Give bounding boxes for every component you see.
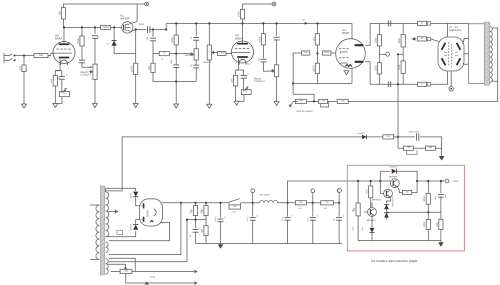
input jack J1 (4, 53, 16, 63)
power transformer T1 primary (96, 205, 99, 259)
wire R15 to left col (293, 53, 301, 94)
wire drain to rail (131, 22, 137, 24)
label 1N4007 b (130, 223, 133, 231)
wire R1 to ground (23, 72, 25, 105)
svg-text:6.3v: 6.3v (150, 276, 156, 279)
svg-text:100u: 100u (214, 218, 217, 222)
node tone bottom (175, 80, 177, 82)
label 4k7 rot a (189, 209, 192, 213)
svg-text:100k: 100k (423, 221, 426, 227)
wire V6 plate to OPT (463, 63, 469, 64)
svg-text:68k: 68k (39, 54, 44, 57)
svg-text:4k7: 4k7 (201, 228, 204, 233)
node diode top (113, 26, 115, 28)
svg-text:+: + (256, 214, 258, 218)
wire cap3 col (287, 203, 289, 217)
wire V3 cath bottom join (236, 95, 244, 102)
wire C4 to tone stack (150, 29, 166, 31)
wire C11 to wiper (263, 62, 272, 71)
resistor R9 100k (171, 35, 178, 45)
wire cap5 down (338, 220, 340, 243)
wire row1 drop to tube (447, 23, 449, 38)
transistor Q1 BU508A (390, 179, 399, 188)
trimmer P8 humdinger (120, 269, 132, 273)
diode D5 zener a (384, 204, 389, 209)
svg-text:+10v: +10v (352, 227, 355, 231)
svg-text:10k: 10k (405, 191, 408, 194)
wire C22 down (440, 197, 442, 219)
wire zener link (386, 209, 388, 212)
wire trim to 50k (413, 147, 425, 149)
wire cap5 col (338, 203, 340, 217)
wire cap1 to ground (220, 222, 222, 244)
resistor R30 dropper b (201, 206, 208, 216)
wire 6.3v lead to pot right (109, 258, 135, 271)
resistor R11 V3 cathode (231, 75, 238, 86)
node B+ after switch (252, 202, 254, 204)
wire rail B (243, 3, 273, 5)
svg-text:GQE04/20: GQE04/20 (449, 29, 462, 32)
svg-text:100k: 100k (171, 37, 174, 43)
resistor R5 470k (77, 36, 84, 46)
wire mid col top (175, 23, 177, 35)
label 4n7 b (190, 63, 193, 67)
wire R12 to cap (262, 45, 264, 58)
resistor R8 56k slope (148, 63, 155, 72)
wire R41 to rail C (242, 19, 244, 23)
resistor R20 grid stop top (418, 21, 427, 25)
label note griglie (371, 259, 418, 263)
capacitor C5 47n (150, 38, 156, 41)
wire rail A from 18k top (63, 4, 65, 8)
label red col1 (352, 208, 355, 212)
svg-text:5k: 5k (421, 37, 423, 40)
wire top loop right (397, 171, 418, 181)
node rail C volume pot (208, 22, 210, 24)
label cap2 v (246, 218, 249, 221)
wire C1 down (61, 80, 63, 92)
wire diode column top (113, 27, 115, 40)
wire V3 cath cap leg (243, 70, 245, 75)
transistor Q3 MPSA44 lower (368, 208, 377, 217)
node B+ 4 (338, 202, 340, 204)
svg-text:220k: 220k (374, 65, 377, 71)
resistor R10 100R grid (218, 51, 227, 55)
wire secondary bottom lead (492, 80, 497, 82)
label red cap (444, 194, 447, 199)
capacitor C18 filter 2 (250, 214, 259, 220)
label VD1 (57, 77, 62, 80)
wire P6 to ground (276, 77, 278, 102)
wire secondary top lead (492, 28, 497, 102)
node 470k rail C (262, 22, 264, 24)
wire tone bottom to ground (175, 82, 177, 105)
label VD2 (247, 63, 251, 66)
terminal B+ 2 (311, 189, 315, 193)
label 100v (361, 227, 364, 231)
resistor R3 18k plate load (58, 8, 65, 20)
wire bottom tone bus (176, 81, 196, 83)
arrow heater b (192, 282, 197, 285)
wire left col upper (152, 30, 154, 37)
node rail C tonestack R9 (175, 22, 177, 24)
wire red col2 down (370, 198, 372, 208)
terminal supply A (145, 2, 149, 6)
svg-text:1k5: 1k5 (231, 78, 234, 83)
wire 5v to B+ loop (109, 203, 181, 255)
arrow wiper into Middle (189, 53, 192, 55)
wire D3 to GZ34 (136, 220, 140, 224)
svg-text:NFB Kit Switch: NFB Kit Switch (297, 110, 314, 113)
wire V4 anode top out (365, 23, 370, 45)
wire entry up to rail C (165, 23, 167, 29)
wire NFB long line (348, 100, 498, 102)
wire grid col1 mid (378, 46, 380, 63)
node cluster b (205, 202, 207, 204)
wire NFB mid2 (328, 100, 338, 102)
svg-text:Hexf007: Hexf007 (389, 166, 398, 169)
label 5H-100mA (260, 193, 271, 196)
capacitor C10 V3 bypass (241, 72, 250, 78)
wire NFB jog (293, 94, 314, 101)
svg-text:5W: 5W (233, 210, 236, 213)
label 6.3v (150, 276, 156, 279)
svg-text:2W: 2W (299, 207, 302, 210)
svg-text:GZ34: GZ34 (147, 210, 150, 217)
svg-text:+8v: +8v (189, 235, 192, 238)
diode D7 red bottom (370, 228, 375, 233)
resistor R4 cathode 1k5 (50, 76, 57, 87)
pentodes V5 V6 output pair (438, 37, 464, 71)
wire cluster top b (205, 203, 207, 206)
svg-text:5H-100mA: 5H-100mA (260, 193, 271, 196)
terminal supply B (272, 2, 276, 6)
label 22nF (139, 23, 145, 26)
label V1 IRF820 (120, 14, 130, 21)
svg-text:620R: 620R (324, 51, 330, 54)
svg-text:6N2P: 6N2P (342, 31, 350, 35)
wire R40 down (440, 230, 442, 241)
label 47n (146, 36, 149, 40)
ground bias module (439, 156, 445, 161)
wire cluster mid drops (195, 216, 197, 220)
wire bias feed right (394, 136, 400, 138)
wire term1 stub (252, 193, 254, 203)
ground R7 (133, 104, 138, 108)
wire humdinger left (111, 271, 120, 273)
capacitor C9 middle bottom (193, 65, 199, 68)
wire cap2 down (252, 220, 254, 243)
wire C3 to P2 (94, 38, 96, 64)
resistor R28 bias 50k (426, 146, 436, 150)
label 300v (302, 18, 305, 21)
svg-text:100k: 100k (237, 11, 240, 17)
wire R9 down (175, 45, 177, 54)
wire R14 to bottom (316, 74, 318, 84)
wire V2 cathode drop (55, 63, 60, 71)
wire bypass stub a (228, 203, 230, 205)
label Hexf007 red (389, 166, 398, 169)
ground P2 (93, 104, 98, 108)
capacitor C2 4n7 wiper feed (79, 60, 85, 63)
node splitter input (316, 52, 318, 54)
wire V2 anode riser (63, 27, 65, 42)
output transformer T2 secondary (490, 27, 493, 83)
svg-text:Volume: Volume (203, 61, 212, 64)
resistor R29 dropper a (190, 206, 197, 216)
wire R13 down (316, 45, 318, 53)
wire R34 out (333, 202, 339, 204)
svg-text:6A5A: 6A5A (235, 37, 242, 41)
wire red col2 (370, 181, 372, 186)
ground V4 cathode (344, 71, 349, 75)
label zener stack (391, 197, 394, 208)
terminal OPT B+ (472, 52, 476, 56)
node rail C middle pot (195, 22, 197, 24)
trimmer P5 arrow (243, 87, 248, 91)
ground red box (438, 242, 444, 247)
wire cluster top a (195, 203, 197, 206)
label 10uF 150v (409, 131, 420, 134)
capacitor C22 red (438, 195, 444, 198)
capacitor C11 4n7 V3 wiper (260, 59, 266, 62)
wire C9 to bottom bus (195, 68, 197, 82)
label 100uF (214, 218, 217, 222)
wire shunt resistor drop (23, 56, 25, 66)
wire Q2 emitter to zener (387, 197, 391, 204)
ground input shunt (22, 104, 27, 108)
node cluster a (194, 202, 196, 204)
wire C12 to P6 (276, 40, 278, 65)
wire B+ line left (163, 202, 227, 204)
output transformer T2 winding frame (469, 24, 485, 84)
capacitor C21 filter 5 (336, 214, 345, 220)
wire drive row1 (370, 22, 468, 24)
wire red mid bus (387, 211, 441, 213)
switch S1 standby (227, 199, 240, 203)
capacitor C8 middle top (193, 38, 199, 41)
wire trim row feed (398, 137, 404, 148)
diode D8 bias feed (362, 135, 366, 139)
wire rail A top (64, 3, 147, 5)
svg-text:Middle: Middle (185, 54, 193, 57)
wire R2 to V2 grid (48, 53, 53, 55)
trimmer P5 V3 cathode (241, 90, 251, 95)
svg-text:30v: 30v (302, 18, 305, 21)
node bias feed (397, 53, 399, 55)
wire cathode left leg (54, 71, 56, 76)
wire middle col top (195, 23, 197, 36)
node rail red 1 (357, 180, 359, 182)
potentiometer P6 Marsh Control 2 (271, 65, 279, 77)
wire V4 bottom connection (351, 68, 353, 83)
svg-text:100R: 100R (219, 52, 225, 55)
wire 470k V3 col (262, 23, 264, 33)
svg-text:220k: 220k (374, 37, 377, 43)
svg-text:5k: 5k (421, 21, 423, 24)
node terminal B dot (273, 3, 275, 5)
capacitor C1 cathode bypass (59, 73, 68, 79)
wire red gnd stub (440, 241, 442, 243)
svg-text:820R: 820R (312, 65, 315, 71)
svg-text:MPSA44: MPSA44 (372, 199, 381, 202)
wire bias cap to corner (420, 137, 441, 156)
resistor R33 10k dropper (295, 201, 306, 205)
svg-text:47u: 47u (306, 218, 309, 221)
resistor R17 NFB 1k5 (295, 99, 306, 103)
node rail red 5 (427, 180, 429, 182)
svg-text:+: + (291, 214, 293, 218)
wire Q1 emitter (398, 187, 403, 193)
resistor R24 grid leak 1b (374, 63, 381, 74)
svg-text:22nF: 22nF (139, 23, 145, 26)
ground tone stack (174, 104, 179, 108)
diode D1 gate protect (112, 41, 117, 46)
svg-text:6A5A: 6A5A (55, 37, 62, 41)
wire source resistor col (135, 30, 137, 64)
wire rail C (166, 22, 352, 24)
triode V2 first stage (53, 42, 75, 66)
svg-text:100R: 100R (124, 270, 129, 273)
wire V3 anode riser (242, 23, 244, 41)
resistor R22 grid stop bottom (418, 82, 427, 86)
wire 50k to corner (435, 147, 441, 149)
label 470p (170, 59, 173, 65)
potentiometer P4 Volume (207, 45, 215, 60)
square terminal row1 (427, 22, 430, 25)
node V3 anode rail C (241, 22, 243, 24)
label cap4 v (306, 218, 309, 221)
node pot cap top (94, 26, 96, 28)
svg-text:1k5: 1k5 (312, 37, 315, 42)
inductor L1 choke (259, 201, 277, 203)
terminal B+ 3 (337, 189, 341, 193)
wire heater mid feed (108, 264, 125, 267)
svg-text:1M: 1M (19, 66, 22, 69)
triode V3 second stage (232, 41, 254, 65)
trimmer P1 gain (59, 92, 69, 97)
wire V4 anode bottom out (365, 62, 370, 85)
node anode V2 (63, 26, 65, 28)
wire R4 to bottom (54, 86, 56, 104)
node cluster feed (186, 219, 188, 221)
label +85v (189, 235, 192, 238)
wire rail A drop to mosfet (136, 4, 138, 22)
red box grid bias supply (347, 165, 464, 251)
square terminal row3 (427, 83, 430, 86)
wire C8 to pot (195, 40, 197, 49)
svg-text:+200v: +200v (452, 180, 459, 183)
label V2 tube (55, 33, 62, 40)
wire grid col2 top (402, 23, 404, 34)
wire 470k drop (81, 27, 83, 36)
svg-text:40v: 40v (333, 218, 336, 221)
capacitor C15 bias 10uF (416, 133, 418, 140)
resistor R21 grid stop mid (417, 37, 426, 41)
wire to middle wiper (176, 53, 189, 55)
resistor R36 red col1 (353, 203, 360, 216)
wire V4 top connection (351, 23, 353, 39)
svg-text:Hexf007: Hexf007 (357, 132, 366, 135)
rectifier GZ34 envelope (140, 199, 163, 226)
output transformer T2 core (484, 22, 490, 85)
power transformer T1 6.3v winding (106, 259, 109, 275)
terminal bias test (386, 52, 390, 56)
wire mid col lower (175, 54, 177, 65)
terminal B+ 1 (251, 189, 255, 193)
arrow wiper into P2 (89, 66, 92, 68)
label 4n7 c (258, 57, 261, 61)
wire cluster mid (187, 219, 206, 221)
capacitor C7 470p (173, 65, 179, 68)
wire R31 links (205, 220, 207, 226)
wire Q2 base (380, 181, 383, 194)
label +45v (434, 196, 437, 200)
resistor R6 220R gate (101, 25, 111, 29)
wire red bottom bus (358, 240, 441, 242)
capacitor C17 cluster (193, 226, 202, 232)
svg-text:BU508A: BU508A (389, 175, 398, 178)
resistor R27 bias feed (383, 135, 394, 139)
wire R35 to rail (412, 181, 417, 193)
wire 7p left (153, 53, 159, 55)
wire bias rectangle (122, 137, 383, 191)
capacitor C16 first filter (218, 216, 227, 222)
wire R11 down (235, 86, 237, 101)
svg-text:+: + (343, 214, 345, 218)
svg-text:+45v: +45v (434, 196, 437, 200)
wire V3 cath left (235, 70, 237, 75)
svg-text:100v: 100v (361, 227, 364, 231)
node NFB junction (313, 100, 315, 102)
wire grid col2 bottom (402, 74, 404, 85)
wire cathode split (55, 70, 62, 72)
trimmer P1 arrow (61, 88, 66, 93)
wire humdinger bottom (126, 274, 193, 283)
svg-text:820R: 820R (131, 66, 134, 72)
wire volume wiper out (212, 53, 218, 54)
svg-text:220k: 220k (398, 37, 401, 43)
wire cathode drop (450, 71, 452, 87)
label Marsh Control 1 (81, 71, 92, 77)
wire left col mid (152, 41, 154, 63)
svg-text:25u: 25u (245, 75, 248, 78)
wire D2 to GZ34 (136, 197, 140, 205)
wire diode column bottom (114, 46, 136, 53)
mosfet V1 IRF820 (122, 22, 133, 33)
wire choke out (278, 202, 296, 204)
wire R16 to V4 grid (331, 52, 336, 54)
wire V3 cathode drop (236, 62, 239, 70)
wire grid col2 mid (402, 47, 404, 61)
svg-text:56k: 56k (387, 135, 390, 138)
resistor R23 grid leak 1a (374, 35, 381, 46)
wire drive row3 (370, 83, 417, 85)
label MPSA44 a (372, 199, 381, 202)
svg-text:+: + (65, 73, 67, 77)
capacitor C13 coupling top (388, 20, 390, 26)
wire bypass stub b (240, 203, 242, 205)
wire C10 down (243, 79, 245, 90)
svg-text:10uF: 10uF (444, 194, 447, 199)
label Hexf007 bias (357, 132, 366, 135)
wire marsh2 top col (276, 23, 278, 35)
node input shunt junction (23, 54, 25, 56)
wire R7 to ground (135, 74, 137, 103)
wire anode node horizontal (64, 26, 101, 28)
svg-text:470k: 470k (77, 38, 80, 44)
arrow humdinger wiper (124, 266, 127, 269)
